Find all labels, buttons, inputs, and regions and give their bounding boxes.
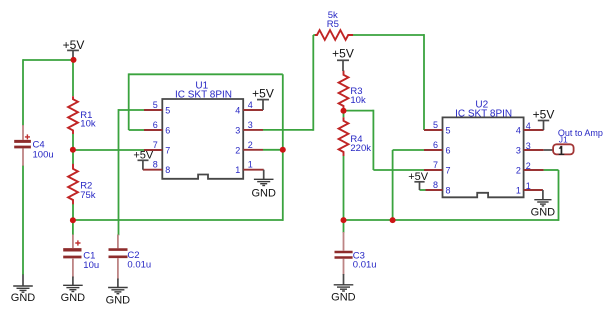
svg-text:GND: GND [11,292,36,304]
svg-text:+5V: +5V [63,38,85,52]
svg-text:1: 1 [526,181,531,191]
svg-text:7: 7 [433,160,438,170]
svg-text:5: 5 [153,100,158,110]
svg-text:1: 1 [516,185,521,195]
svg-text:7: 7 [153,140,158,150]
svg-text:4: 4 [235,105,240,115]
svg-text:GND: GND [106,294,131,306]
svg-text:7: 7 [165,145,170,155]
svg-text:GND: GND [251,188,276,200]
svg-text:GND: GND [61,292,86,304]
svg-text:R5: R5 [327,19,339,30]
svg-text:+5V: +5V [133,150,154,162]
svg-text:2: 2 [235,145,240,155]
svg-text:+5V: +5V [252,87,274,101]
svg-text:2: 2 [526,161,531,171]
svg-text:GND: GND [531,207,556,219]
svg-text:10k: 10k [350,95,366,106]
svg-text:4: 4 [248,100,253,110]
svg-text:7: 7 [446,165,451,175]
svg-text:0.01u: 0.01u [353,260,377,271]
svg-text:IC SKT 8PIN: IC SKT 8PIN [455,108,512,119]
svg-text:75k: 75k [80,190,96,201]
svg-text:4: 4 [516,125,521,135]
svg-text:IC SKT 8PIN: IC SKT 8PIN [175,90,232,101]
svg-text:0.01u: 0.01u [127,260,151,271]
svg-text:10k: 10k [80,119,96,130]
svg-text:6: 6 [446,145,451,155]
svg-text:+5V: +5V [332,47,354,61]
svg-text:6: 6 [433,140,438,150]
svg-text:+5V: +5V [408,171,429,183]
svg-text:2: 2 [516,165,521,175]
svg-text:8: 8 [153,160,158,170]
svg-text:6: 6 [153,120,158,130]
svg-text:4: 4 [526,121,531,131]
svg-text:+5V: +5V [533,108,555,122]
svg-text:6: 6 [165,125,170,135]
svg-text:J1: J1 [559,134,568,144]
svg-text:3: 3 [526,141,531,151]
svg-text:8: 8 [165,165,170,175]
svg-text:5: 5 [446,125,451,135]
svg-text:5: 5 [165,105,170,115]
svg-text:1: 1 [248,160,253,170]
svg-text:5: 5 [433,120,438,130]
svg-text:2: 2 [248,140,253,150]
svg-text:10u: 10u [83,260,99,271]
svg-text:3: 3 [235,125,240,135]
svg-text:GND: GND [331,292,356,304]
svg-text:100u: 100u [33,149,54,160]
svg-text:220k: 220k [350,143,371,154]
svg-text:3: 3 [516,145,521,155]
svg-text:8: 8 [433,180,438,190]
svg-text:8: 8 [446,185,451,195]
svg-text:3: 3 [248,120,253,130]
svg-text:1: 1 [235,165,240,175]
